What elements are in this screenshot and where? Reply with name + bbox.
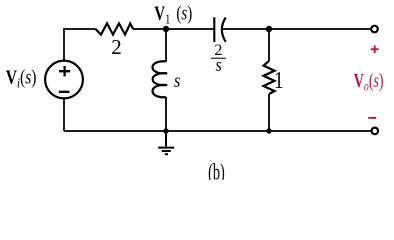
ground: [158, 131, 174, 154]
caption (b): [208, 160, 225, 185]
capacitor 2/s left plate: [213, 17, 215, 42]
voltage source Vi(s) circle: [45, 61, 83, 99]
resistor 1 value label: [274, 67, 284, 94]
resistor 2 (horizontal zigzag): [96, 23, 134, 34]
wire left vertical source top lead: [63, 28, 65, 61]
output terminal top (open circle): [371, 26, 378, 33]
inductor s (coil): [152, 61, 167, 97]
inductor value label s: [174, 70, 180, 92]
wire resistor R1 top lead: [268, 29, 270, 61]
node dot bottom R1 junction: [266, 128, 271, 133]
wire left vertical source bottom lead: [63, 98, 65, 131]
svg-text:Vo(s): Vo(s): [354, 70, 384, 94]
wire bottom rail: [64, 130, 372, 132]
wire top-left from source to resistor: [64, 28, 96, 30]
wire inductor top lead: [165, 29, 167, 62]
voltage source minus sign: [59, 91, 70, 93]
capacitor value label 2/s fraction: [211, 42, 226, 75]
output label Vo(s) (red): [354, 70, 384, 94]
node dot top-right junction: [266, 26, 272, 32]
node dot V1 (top): [163, 26, 169, 32]
svg-text:s: s: [174, 70, 180, 92]
capacitor 2/s right curved plate: [222, 18, 226, 42]
node V1 label: [154, 2, 192, 27]
svg-text:(b): (b): [208, 160, 225, 180]
voltage source plus sign: [59, 66, 70, 76]
wire resistor R1 bottom lead: [268, 94, 270, 131]
svg-text:Vi(s): Vi(s): [6, 66, 37, 91]
wire top from capacitor to right terminal: [223, 28, 371, 30]
output plus sign (red): [371, 45, 379, 53]
wire top from resistor to node V1: [133, 28, 213, 30]
output minus sign (red): [368, 117, 376, 119]
svg-text:V1(s): V1(s): [154, 2, 192, 27]
source label Vi(s): [6, 66, 37, 91]
output terminal bottom (open circle): [372, 128, 379, 135]
node dot bottom inductor/ground junction: [163, 128, 168, 133]
wire inductor bottom lead: [165, 97, 167, 131]
svg-text:2: 2: [111, 35, 122, 59]
svg-text:s: s: [215, 54, 221, 76]
resistor 1 (vertical zigzag): [264, 61, 275, 94]
svg-text:1: 1: [274, 67, 284, 94]
